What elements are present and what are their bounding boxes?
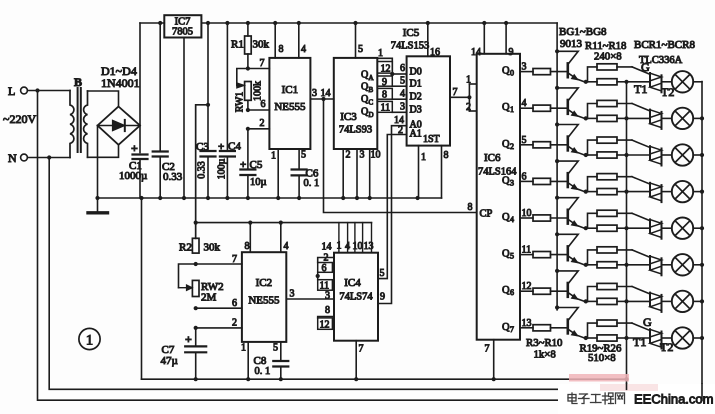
svg-text:Q: Q	[502, 102, 510, 113]
svg-text:30k: 30k	[253, 39, 270, 51]
svg-text:510×8: 510×8	[588, 352, 616, 364]
svg-text:74LS74: 74LS74	[339, 292, 373, 303]
svg-text:9: 9	[382, 77, 387, 88]
wire gate diagonal	[632, 67, 650, 74]
svg-text:240×8: 240×8	[594, 51, 622, 63]
lamp row 1	[672, 108, 702, 129]
wire top bus left segment	[140, 22, 164, 24]
capacitor C5 10u	[240, 129, 267, 198]
triac BCR2 TLC336A	[627, 110, 672, 129]
svg-text:IC5: IC5	[403, 27, 420, 39]
resistor R6 base 1k	[520, 178, 567, 184]
svg-text:5: 5	[510, 252, 514, 261]
svg-text:8: 8	[245, 241, 250, 252]
wire L to transformer	[27, 90, 70, 92]
transistor BG2 9013	[557, 88, 584, 119]
wire IC1 pin4 stub	[298, 23, 300, 58]
svg-text:2: 2	[260, 118, 265, 129]
svg-text:12: 12	[381, 64, 391, 75]
transistor BG6 9013	[557, 234, 584, 264]
svg-text:11: 11	[381, 103, 391, 114]
potentiometer RW1 100k	[235, 69, 264, 113]
svg-text:D3: D3	[410, 104, 422, 115]
lamp row 6	[672, 291, 702, 312]
svg-text:3: 3	[360, 150, 365, 161]
bridge rectifier D1~D4 1N4001	[98, 64, 141, 145]
svg-text:D1: D1	[410, 79, 422, 90]
resistor R16 gate 240	[588, 247, 633, 265]
svg-text:5: 5	[358, 44, 363, 55]
wire T1 rail	[626, 82, 628, 390]
svg-text:2: 2	[346, 150, 351, 161]
svg-text:8: 8	[325, 305, 330, 316]
wire IC2 pin6	[196, 307, 242, 309]
svg-text:5: 5	[301, 150, 306, 161]
svg-text:L: L	[8, 84, 15, 98]
svg-text:13: 13	[364, 241, 374, 252]
wire raw DC to C2	[159, 23, 161, 152]
svg-text:4: 4	[301, 44, 306, 55]
svg-text:Q: Q	[502, 285, 510, 296]
resistor R3 base 1k	[520, 69, 567, 75]
svg-text:R1: R1	[231, 39, 244, 51]
node Q3 output row	[502, 171, 527, 187]
svg-text:9: 9	[380, 292, 385, 303]
wire IC5 pin7 out to IC6 pins 1,2	[450, 96, 469, 98]
svg-text:IC3: IC3	[340, 111, 357, 123]
svg-text:1: 1	[421, 152, 426, 163]
wire A1 from IC4 pin5	[378, 135, 407, 279]
svg-text:NE555: NE555	[274, 101, 306, 113]
svg-text:CP: CP	[480, 209, 493, 220]
timer IC2 NE555	[242, 252, 286, 342]
svg-text:2: 2	[466, 102, 471, 113]
svg-text:R2: R2	[179, 242, 192, 254]
wire IC1 pin1 stub	[277, 149, 279, 198]
wire lamp rail through watermark	[701, 384, 703, 400]
svg-text:D2: D2	[410, 91, 422, 102]
wire IC2 pin7	[196, 263, 242, 265]
wire A0 from IC4 pin9	[378, 126, 407, 304]
svg-text:0.33: 0.33	[163, 171, 183, 183]
triac BCR4 TLC336A	[627, 183, 672, 202]
svg-text:47µ: 47µ	[161, 355, 178, 367]
resistor R1 30k	[231, 23, 270, 69]
svg-text:A1: A1	[410, 129, 422, 140]
svg-text:4: 4	[284, 241, 289, 252]
selector IC5 74LS153	[391, 27, 450, 146]
svg-text:10: 10	[353, 241, 363, 252]
svg-text:4: 4	[345, 241, 350, 252]
node L terminal	[8, 84, 27, 98]
svg-text:1000µ: 1000µ	[119, 170, 147, 182]
svg-text:A: A	[369, 74, 374, 82]
regulator IC7 7805	[164, 15, 201, 37]
wire IC3 bottom pins 2,3,10	[342, 149, 344, 198]
svg-text:74LS153: 74LS153	[391, 41, 430, 52]
resistor R2 30k	[179, 238, 221, 253]
svg-text:4: 4	[400, 89, 405, 100]
svg-text:BCR1~BCR8: BCR1~BCR8	[634, 39, 695, 51]
svg-text:7: 7	[510, 325, 514, 334]
svg-text:Q: Q	[502, 212, 510, 223]
wire IC1 pin2	[248, 128, 270, 130]
watermark band	[558, 384, 715, 414]
svg-text:Q: Q	[502, 322, 510, 333]
svg-text:6: 6	[322, 263, 327, 274]
svg-text:3: 3	[400, 102, 405, 113]
lamp row 2	[672, 144, 702, 165]
svg-text:6: 6	[400, 63, 405, 74]
wire gate diagonal	[632, 140, 650, 147]
svg-text:2: 2	[510, 142, 514, 151]
transistor BG7 9013	[557, 271, 584, 302]
wire secondary top to bridge	[88, 91, 119, 107]
wire IC5 pin16 stub	[427, 23, 429, 56]
wire IC6 pin7 stub	[493, 340, 495, 380]
svg-text:6: 6	[261, 99, 266, 110]
svg-text:74LS93: 74LS93	[339, 125, 372, 136]
wire gate diagonal	[632, 104, 650, 111]
wire gate diagonal	[632, 287, 650, 294]
wire L down to bottom bus3	[38, 91, 702, 401]
svg-text:RW1: RW1	[235, 92, 246, 113]
resistor R4 base 1k	[520, 105, 567, 111]
transformer B	[70, 75, 88, 158]
svg-text:B: B	[369, 86, 374, 94]
transistor BG4 9013	[557, 161, 584, 192]
wire gate diagonal	[632, 250, 650, 257]
resistor R23 510	[588, 225, 627, 231]
counter IC3 74LS93	[334, 58, 378, 149]
wire IC1 pin8 stub	[274, 23, 276, 58]
lamp row 4	[672, 218, 702, 239]
svg-text:TLC336A: TLC336A	[639, 55, 683, 66]
svg-text:1: 1	[271, 151, 276, 162]
resistor R11 gate 240	[588, 64, 633, 82]
timer IC1 NE555	[269, 58, 310, 149]
svg-text:7: 7	[260, 58, 265, 69]
wire IC7 ground pin	[183, 38, 185, 199]
flip-flop IC4 74LS74	[334, 253, 378, 341]
svg-text:16: 16	[430, 47, 440, 58]
svg-text:14: 14	[471, 47, 481, 58]
svg-text:6: 6	[232, 298, 237, 309]
wire IC4 pin7 stub	[355, 341, 357, 380]
svg-text:100k: 100k	[253, 81, 264, 101]
svg-text:7: 7	[453, 87, 458, 98]
svg-text:8: 8	[279, 44, 284, 55]
resistor R10 base 1k	[520, 325, 567, 331]
wire T1 rail through watermark	[626, 384, 628, 389]
node Q6 output row	[502, 281, 532, 297]
resistor R12 gate 240	[588, 100, 633, 118]
wire IC2 pin1 stub	[247, 342, 249, 379]
wire gate diagonal	[632, 177, 650, 184]
capacitor C1 1000u	[119, 141, 148, 198]
capacitor C2 0.33	[153, 152, 183, 199]
svg-text:BG1~BG8: BG1~BG8	[559, 26, 607, 38]
svg-text:1: 1	[86, 333, 93, 349]
resistor R26 510	[588, 335, 627, 341]
triac BCR1 TLC336A	[627, 73, 672, 92]
svg-text:3: 3	[290, 289, 295, 300]
ground bus line	[98, 197, 442, 199]
wire QD to D3	[392, 111, 406, 113]
svg-text:8: 8	[468, 202, 473, 213]
wire IC3 pin5 stub	[355, 23, 357, 58]
svg-text:0: 0	[510, 69, 514, 78]
resistor R25 510	[588, 298, 627, 304]
svg-text:IC2: IC2	[256, 277, 273, 289]
wire ground drop to bus1	[141, 198, 143, 379]
resistor R7 base 1k	[520, 215, 567, 221]
wire N to transformer	[27, 157, 70, 159]
svg-text:+: +	[185, 332, 192, 346]
svg-text:~220V: ~220V	[3, 112, 36, 126]
svg-text:Q: Q	[502, 66, 510, 77]
triac BCR7 TLC336A	[627, 293, 672, 312]
wire IC5 pin8 stub to ground bus end	[441, 146, 443, 198]
wire IC6 pin9 stub	[505, 23, 507, 54]
node Q2 output row	[502, 135, 527, 151]
wire IC2 pin4 stub	[280, 223, 282, 253]
wire QB to D1	[392, 85, 406, 87]
svg-text:9013: 9013	[560, 38, 583, 50]
wire bridge plus up to top bus	[139, 23, 141, 126]
svg-text:Q: Q	[502, 249, 510, 260]
resistor R19 510	[588, 79, 627, 85]
transistor BG8 9013	[557, 308, 584, 339]
svg-text:12: 12	[320, 320, 330, 331]
wire lamp rail right	[701, 82, 703, 401]
svg-text:6: 6	[510, 288, 514, 297]
wire IC2 pin3 to IC4 pin3	[286, 298, 334, 300]
resistor R18 gate 240	[588, 320, 633, 338]
wire clock to IC6 CP	[324, 99, 477, 213]
resistor R13 gate 240	[588, 137, 633, 155]
svg-text:3: 3	[510, 178, 514, 187]
svg-text:74LS164: 74LS164	[478, 167, 517, 178]
lamp row 0	[672, 71, 702, 92]
wire QA to D0	[392, 73, 406, 75]
svg-text:3: 3	[312, 88, 317, 99]
transistor BG5 9013	[557, 198, 584, 229]
wire gate diagonal	[632, 323, 650, 330]
svg-text:14: 14	[321, 88, 331, 99]
svg-text:8: 8	[382, 90, 387, 101]
resistor R9 base 1k	[520, 288, 567, 294]
svg-text:14: 14	[322, 242, 332, 253]
svg-text:Q: Q	[502, 139, 510, 150]
node Q5 output row	[502, 245, 531, 261]
svg-text:G: G	[643, 315, 652, 329]
svg-text:2: 2	[232, 318, 237, 329]
capacitor C3 0.33	[196, 141, 216, 198]
svg-text:1: 1	[337, 241, 342, 252]
node Q0 output row	[502, 62, 527, 78]
svg-text:7: 7	[485, 344, 490, 355]
svg-text:IC6: IC6	[484, 152, 501, 164]
svg-text:T1: T1	[633, 335, 646, 349]
svg-text:Q: Q	[502, 175, 510, 186]
svg-text:T2: T2	[660, 340, 673, 354]
wire bridge to C1	[139, 126, 141, 153]
svg-text:1: 1	[241, 343, 246, 354]
svg-text:D: D	[369, 111, 374, 119]
potentiometer RW2 2M	[179, 264, 224, 304]
svg-text:7: 7	[232, 254, 237, 265]
svg-text:7805: 7805	[172, 27, 193, 38]
svg-text:10: 10	[371, 150, 381, 161]
capacitor C4 100u	[217, 23, 242, 198]
svg-text:0. 1: 0. 1	[304, 178, 320, 189]
resistor R8 base 1k	[520, 252, 567, 258]
lamp row 5	[672, 254, 702, 275]
svg-text:3: 3	[325, 291, 330, 302]
svg-text:IC1: IC1	[282, 84, 299, 96]
wire top +5V bus	[201, 22, 557, 24]
svg-text:9: 9	[509, 47, 514, 58]
svg-text:4: 4	[510, 215, 514, 224]
svg-text:2M: 2M	[201, 292, 217, 304]
wire QC to D2	[392, 98, 406, 100]
svg-text:N: N	[8, 151, 17, 165]
svg-text:B: B	[74, 75, 82, 89]
svg-text:5: 5	[380, 268, 385, 279]
figure number 1	[79, 328, 100, 349]
wire N down to bottom bus2	[49, 158, 626, 390]
wire IC4 top pin stubs 14,1,4,10,13	[322, 223, 374, 253]
wire IC5 pin1 stub	[418, 146, 420, 198]
svg-text:1N4001: 1N4001	[101, 76, 140, 90]
wire secondary bottom to bridge	[88, 145, 119, 158]
svg-text:8: 8	[444, 150, 449, 161]
resistor R5 base 1k	[520, 142, 567, 148]
transistor BG1 9013	[557, 51, 584, 82]
svg-text:C: C	[369, 99, 374, 107]
node Q1 output row	[502, 98, 527, 114]
wire IC3 pin1 jog	[377, 58, 392, 74]
svg-text:2: 2	[398, 125, 403, 136]
svg-text:R3~R10: R3~R10	[526, 337, 562, 349]
triac BCR8 TLC336A	[627, 329, 672, 348]
svg-text:1k×8: 1k×8	[534, 349, 556, 361]
wire IC6 pin14 stub	[483, 23, 485, 54]
svg-text:C3: C3	[196, 141, 209, 153]
svg-text:100µ: 100µ	[217, 158, 228, 179]
node Q7 output row	[502, 318, 532, 334]
wire +5V feed lower rail	[195, 105, 197, 239]
svg-text:1: 1	[378, 48, 383, 59]
wire IC2 pin8 stub	[249, 223, 251, 253]
svg-text:1: 1	[466, 75, 471, 86]
resistor R17 gate 240	[588, 283, 633, 301]
shift register IC6 74LS164	[477, 54, 520, 340]
wire C3 drop with branch to lower section	[207, 23, 209, 151]
svg-text:+: +	[131, 141, 138, 155]
lamp row 7	[672, 327, 702, 348]
wire bridge minus to ground bus	[97, 126, 99, 199]
watermark text	[568, 393, 625, 404]
ground	[88, 198, 108, 213]
svg-text:T2: T2	[661, 85, 674, 99]
svg-text:D0: D0	[410, 66, 422, 77]
resistor R24 510	[588, 262, 627, 268]
svg-text:10µ: 10µ	[250, 177, 267, 188]
node Q4 output row	[502, 208, 532, 224]
wire IC2 pin2	[196, 327, 242, 329]
wire gate diagonal	[632, 213, 650, 220]
resistor R21 510	[588, 152, 627, 158]
svg-text:5: 5	[273, 343, 278, 354]
wire bus1 ground	[142, 378, 627, 380]
svg-text:30k: 30k	[204, 242, 221, 254]
svg-text:1: 1	[510, 105, 514, 114]
wire IC1 pin3 to IC3 pin14	[310, 98, 333, 100]
svg-text:NE555: NE555	[248, 295, 280, 307]
svg-text:11: 11	[320, 281, 330, 292]
lamp row 3	[672, 181, 702, 202]
triac BCR3 TLC336A	[627, 146, 672, 165]
resistor R22 510	[588, 189, 627, 195]
capacitor C7 47u	[161, 328, 207, 379]
wire IC1 pin5 stub / capacitor C6 0.1	[292, 149, 320, 198]
svg-text:7: 7	[359, 344, 364, 355]
svg-text:5: 5	[400, 76, 405, 87]
svg-text:T1: T1	[634, 82, 647, 96]
wire IC1 pin6	[248, 109, 270, 111]
transistor BG3 9013	[557, 125, 584, 156]
node N terminal	[8, 151, 27, 165]
svg-text:IC4: IC4	[344, 277, 361, 289]
svg-text:0. 1: 0. 1	[255, 366, 271, 377]
wire collector rail from top bus	[556, 23, 558, 310]
svg-text:0.33: 0.33	[196, 161, 207, 179]
triac BCR5 TLC336A	[627, 219, 672, 238]
resistor R20 510	[588, 115, 627, 121]
wire IC2 pin5 stub / capacitor C8 0.1	[254, 342, 289, 379]
resistor R14 gate 240	[588, 174, 633, 192]
svg-text:1ST: 1ST	[423, 134, 440, 145]
resistor R15 gate 240	[588, 210, 633, 228]
wire IC1 pin7	[248, 68, 270, 70]
pin boxes 12/9/8/11 of IC3	[377, 62, 392, 114]
triac BCR6 TLC336A	[627, 256, 672, 275]
